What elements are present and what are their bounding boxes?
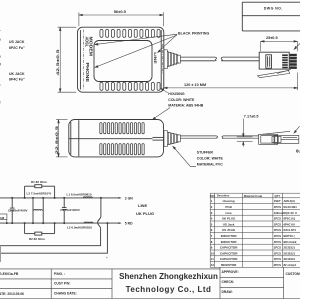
dimension 7.17±0.5 (plug height): [237, 119, 253, 147]
svg-text:RESISTOR: RESISTOR: [221, 263, 237, 267]
svg-text:US JCAK: US JCAK: [222, 228, 236, 232]
svg-text:DRAW:: DRAW:: [222, 290, 233, 294]
title block: company name: [119, 272, 218, 294]
side view: line cord wire: [180, 136, 258, 139]
svg-text:CHECK:: CHECK:: [222, 280, 235, 284]
svg-text:EG10-FB1: EG10-FB1: [284, 205, 298, 209]
top view: RJ11 plug contacts: [282, 54, 297, 69]
svg-text:7.17±0.5: 7.17±0.5: [244, 115, 259, 119]
svg-text:1SET: 1SET: [274, 199, 281, 203]
svg-text:1M: 1M: [0, 216, 5, 220]
leader from STUFFER note to boot: [173, 146, 196, 166]
svg-text:7: 7: [211, 234, 213, 238]
svg-text:B08*10 (: B08*10 (: [284, 234, 295, 238]
svg-text:22.8±0.5: 22.8±0.5: [54, 125, 59, 154]
svg-text:B01.0mH(: B01.0mH(: [284, 240, 297, 244]
svg-text:LINE: LINE: [138, 203, 147, 208]
top view: cable strain-relief boot: [164, 50, 180, 69]
svg-text:RQC 2C U: RQC 2C U: [284, 211, 297, 215]
svg-text:6: 6: [211, 228, 213, 232]
title block: part number / dates: [0, 272, 77, 296]
svg-text:5 RD: 5 RD: [125, 222, 133, 226]
svg-text:CHANG DATE:: CHANG DATE:: [54, 292, 77, 296]
svg-text:INDUCTOR: INDUCTOR: [221, 240, 238, 244]
svg-text:UK PLUG: UK PLUG: [222, 217, 236, 221]
dimension 56±0.5 (housing width): [79, 12, 163, 26]
side view: ventilation slots bottom row: [100, 144, 144, 155]
svg-text:L1 6.0mH/SR0810: L1 6.0mH/SR0810: [67, 193, 92, 197]
top view: PCB centerline (dash-dot): [83, 30, 162, 91]
svg-text:2G333J1: 2G333J1: [284, 246, 296, 250]
note: STUFFER COLOR WHITE MATERIAL PVC: [197, 151, 224, 167]
svg-text:MATERIA: ABS 94HB: MATERIA: ABS 94HB: [168, 104, 203, 108]
leader arrow to plug contacts: [294, 44, 300, 50]
schematic: bottom rail wire (to pin 5): [0, 222, 121, 224]
svg-text:120mm: 120mm: [274, 211, 284, 215]
note: HOUSING COLOR WHITE MATERIA ABS 94HB: [168, 92, 203, 108]
dimension 25±0.5 (plug length): [261, 41, 298, 52]
svg-text:COLOR: WHITE: COLOR: WHITE: [197, 157, 224, 161]
leader lines from BLACK PRINTING: [95, 34, 177, 67]
svg-text:1: 1: [211, 199, 213, 203]
svg-text:120 ± 10 MM: 120 ± 10 MM: [184, 83, 206, 87]
svg-text:APPROVE:: APPROVE:: [222, 270, 239, 274]
svg-text:Housing: Housing: [223, 199, 235, 203]
svg-text:6P2C (U): 6P2C (U): [284, 217, 296, 221]
top view: splitter housing outline: [78, 27, 164, 92]
dimension 42.5±0.5 (housing height): [58, 27, 77, 92]
svg-text:INDUCTOR: INDUCTOR: [221, 234, 238, 238]
top view: inner recess rectangle: [94, 41, 152, 82]
svg-text:UK PLUG: UK PLUG: [136, 211, 154, 216]
svg-text:Line: Line: [226, 211, 232, 215]
svg-text:6u: 6u: [296, 149, 300, 154]
svg-text:1PCS: 1PCS: [274, 228, 281, 232]
svg-text:2G103J1: 2G103J1: [284, 257, 296, 261]
svg-text:8: 8: [211, 240, 213, 244]
cropped leader fragments at left edge: [0, 29, 2, 105]
side view: ventilation slots top row: [100, 123, 144, 134]
top view: line cord wire: [180, 57, 259, 61]
bill of materials table: [210, 193, 300, 267]
svg-text:82 ohm(A: 82 ohm(A: [284, 263, 297, 267]
svg-text:1PCS: 1PCS: [274, 205, 281, 209]
side view: cable strain-relief boot: [164, 131, 180, 147]
svg-text:1PCS: 1PCS: [274, 257, 281, 261]
svg-text:L3 7.5mH/SR10*6: L3 7.5mH/SR10*6: [27, 192, 52, 196]
svg-text:COLOR: WHITE: COLOR: WHITE: [168, 98, 195, 102]
svg-text:ATE: 2013.05.06: ATE: 2013.05.06: [0, 292, 24, 296]
inductor L1 6.0mH (on top rail): [83, 197, 92, 198]
svg-text:2: 2: [0, 100, 1, 104]
svg-text:UK JACK: UK JACK: [9, 72, 25, 76]
svg-text:CAPACITOR: CAPACITOR: [220, 257, 238, 261]
svg-text:LINE: LINE: [153, 52, 158, 64]
svg-text:BLACK PRINTING: BLACK PRINTING: [178, 32, 210, 36]
svg-text:=: =: [0, 84, 1, 88]
svg-text:C2 33nF/400V: C2 33nF/400V: [8, 208, 28, 212]
connector stub at left edge of schematic: [0, 214, 7, 220]
svg-text:2G333J1: 2G333J1: [284, 251, 296, 255]
svg-text:11: 11: [211, 257, 214, 261]
DWG NO. title box: [242, 2, 300, 31]
svg-text:6P4C Fu": 6P4C Fu": [9, 78, 25, 82]
leader from HOUSING note to side view: [153, 108, 170, 120]
top view: RJ11 plug latch lever: [258, 71, 290, 78]
svg-text:C1 15nF/400V: C1 15nF/400V: [60, 208, 80, 212]
dimension 120 ± 10 MM (cord length): [164, 73, 298, 91]
wire: tap from top rail crossing bottom rail (hop): [0, 198, 101, 246]
svg-text:DWG NO.: DWG NO.: [264, 7, 283, 11]
svg-text:US Jack: US Jack: [223, 222, 235, 226]
wire: tap from bottom rail return: [0, 223, 107, 253]
svg-text:9: 9: [211, 246, 213, 250]
svg-text:1PCS: 1PCS: [274, 251, 281, 255]
svg-text:CUSTOM: CUSTOM: [286, 272, 300, 276]
svg-text:R2 82 Ohm: R2 82 Ohm: [29, 237, 45, 241]
side view: plug latch + leader arrow: [262, 126, 300, 134]
svg-text:a: a: [0, 38, 1, 42]
top view: RJ11 plug body: [259, 52, 289, 69]
svg-text:42.5±0.5: 42.5±0.5: [55, 48, 60, 75]
schematic: top rail wire (to pin 2): [0, 197, 121, 199]
svg-text:56±0.5: 56±0.5: [114, 9, 127, 14]
label UK JACK 6P4C: [9, 72, 25, 82]
label US JACK 6P2C: [9, 40, 25, 50]
leader from HOUSING note to top view: [161, 88, 168, 92]
svg-text:25±0.5: 25±0.5: [266, 36, 278, 40]
svg-text:HOUSING: HOUSING: [168, 92, 185, 96]
svg-text:5: 5: [211, 222, 213, 226]
svg-text:3: 3: [211, 211, 213, 215]
resistor R2 82 Ohm (loop below bottom rail): [25, 223, 55, 235]
resistor R1 82 Ohm (loop above top rail): [25, 185, 55, 198]
svg-text:L2 6.0mH/SR0810: L2 6.0mH/SR0810: [67, 226, 92, 230]
svg-text:6P2C Fu": 6P2C Fu": [9, 46, 25, 50]
title block: approval cells: [222, 270, 300, 294]
svg-text:R1 82 Ohm: R1 82 Ohm: [31, 180, 47, 184]
svg-text:PCB: PCB: [225, 205, 232, 209]
svg-text:4: 4: [211, 217, 213, 221]
title block grid: [0, 267, 300, 298]
svg-text:P/NO. :: P/NO. :: [54, 272, 65, 276]
svg-text:MODEM: MODEM: [88, 37, 93, 57]
svg-text:US JACK: US JACK: [9, 40, 25, 44]
svg-text:CAPACITOR: CAPACITOR: [220, 246, 238, 250]
svg-text:STUFFER: STUFFER: [197, 151, 214, 155]
svg-text:M: M: [0, 63, 2, 67]
svg-text:MATERIAL PVC: MATERIAL PVC: [197, 162, 223, 166]
dimension 22.8±0.5 (housing thickness): [56, 120, 68, 157]
svg-text:CAPACITOR: CAPACITOR: [220, 251, 238, 255]
svg-text:1PCS: 1PCS: [274, 222, 281, 226]
svg-text:+: +: [106, 256, 108, 260]
top view: ventilation slots bottom row: [100, 82, 160, 90]
svg-text:Descrition: Descrition: [217, 195, 230, 198]
svg-text:2 GN: 2 GN: [125, 196, 133, 200]
side view: RJ11 plug body: [259, 134, 299, 144]
svg-text:2: 2: [211, 205, 213, 209]
side view: housing outline: [69, 120, 164, 157]
junction dots: [6, 197, 109, 224]
capacitor C1 15nF/400V: [62, 198, 67, 223]
svg-text:NO: NO: [211, 194, 215, 198]
svg-text:12: 12: [211, 263, 215, 267]
svg-text:Material Code: Material Code: [244, 194, 263, 198]
scan edge artifact: [0, 246, 2, 262]
svg-text:≈: ≈: [0, 29, 1, 33]
svg-text:PHONE: PHONE: [85, 63, 90, 83]
svg-text:Technology Co., Ltd: Technology Co., Ltd: [126, 285, 212, 294]
svg-text:AML4(A): AML4(A): [284, 199, 296, 203]
svg-text:1PCS: 1PCS: [274, 246, 281, 250]
svg-text:1PCS: 1PCS: [274, 240, 281, 244]
top view: ventilation slots top row: [100, 29, 160, 37]
svg-text:CUST P/N:: CUST P/N:: [54, 282, 71, 286]
svg-text:10: 10: [211, 251, 215, 255]
svg-text:1PCS: 1PCS: [274, 217, 281, 221]
inductor L3 7.5mH (between rails): [33, 198, 43, 223]
capacitor C2 33nF/400V: [10, 198, 15, 223]
svg-text:RJ11 4P4: RJ11 4P4: [284, 228, 297, 232]
svg-text:QTY: QTY: [275, 194, 281, 198]
svg-text:Shenzhen Zhongkezhixun: Shenzhen Zhongkezhixun: [119, 272, 218, 281]
inductor L2 6.0mH (on bottom rail): [84, 222, 93, 223]
svg-text:a: a: [0, 55, 1, 59]
svg-text:1PCS: 1PCS: [274, 234, 281, 238]
svg-text:2PCS: 2PCS: [274, 263, 281, 267]
svg-text:6P4C 6U: 6P4C 6U: [284, 222, 295, 226]
svg-text:G-EK01a-FB: G-EK01a-FB: [0, 272, 19, 276]
